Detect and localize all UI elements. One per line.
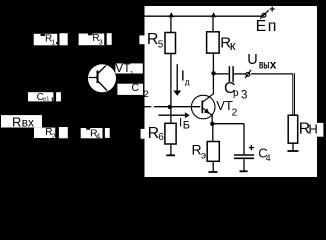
power terminal Еп (circle + slash) xyxy=(260,10,269,19)
svg-text:1: 1 xyxy=(51,40,55,47)
svg-text:Н: Н xyxy=(308,122,317,137)
transistor VT1 (ghost circle, first stage) xyxy=(86,63,116,93)
node: junction dot collector/Cp3 xyxy=(211,71,215,75)
svg-text:х: х xyxy=(270,57,277,71)
transistor VT2 xyxy=(191,94,215,119)
svg-text:3: 3 xyxy=(241,89,247,101)
capacitor C4 plus sign xyxy=(249,145,254,150)
svg-text:U: U xyxy=(247,52,257,68)
svg-text:2: 2 xyxy=(144,89,149,100)
resistor R5 xyxy=(165,33,176,54)
current arrow Iб (base current) xyxy=(158,112,190,131)
ground: Rэ terminal bar xyxy=(209,171,218,173)
transistor VT1 label xyxy=(115,61,143,78)
svg-text:д: д xyxy=(185,78,190,87)
svg-text:вы: вы xyxy=(259,57,270,71)
wire: top supply rail xyxy=(145,15,262,17)
resistor R6 xyxy=(165,123,176,144)
svg-text:6: 6 xyxy=(158,132,164,143)
svg-text:I: I xyxy=(179,117,182,129)
resistor Rн xyxy=(288,115,298,143)
svg-text:VT: VT xyxy=(216,98,233,113)
wire: R6 bottom xyxy=(170,144,172,155)
output terminal (circle + slash) xyxy=(245,70,251,78)
wire: double vertical down to Rн xyxy=(292,74,294,115)
wire: output terminal to Rн corner xyxy=(251,73,293,75)
wire: emitter node to Rэ xyxy=(212,124,214,142)
wire: emitter down to node xyxy=(211,115,213,124)
wire: down to C4 top plate xyxy=(243,124,245,155)
svg-text:C: C xyxy=(131,82,139,94)
node: junction dot base/R5-R6 xyxy=(168,105,172,109)
svg-text:R: R xyxy=(12,114,21,129)
node: junction dot emitter/Rэ/C4 xyxy=(210,122,214,126)
resistor R6 label box fragment (sticks out left of panel) xyxy=(141,129,145,139)
resistor R3 (ghost label box, first stage) xyxy=(79,33,112,46)
wire: R5 bottom to base node to R6 xyxy=(170,54,172,124)
svg-text:3: 3 xyxy=(99,39,103,46)
svg-text:2: 2 xyxy=(232,107,238,118)
wire: Cp3 to output terminal xyxy=(234,73,246,75)
wire: Rk top xyxy=(212,16,214,32)
wire: emitter node to C4 (horizontal) xyxy=(212,123,244,125)
wire: C4 bottom xyxy=(243,159,245,171)
ground: C4 terminal bar xyxy=(240,170,248,172)
svg-text:1: 1 xyxy=(130,71,134,78)
power label + xyxy=(270,6,275,11)
resistor R5 label box fragment (sticks out left of panel) xyxy=(139,35,145,44)
resistor Rk xyxy=(207,32,220,53)
ground: R6 terminal bar xyxy=(166,154,175,156)
resistor R4 (ghost label box, first stage) xyxy=(81,128,110,141)
svg-text:Б: Б xyxy=(183,119,190,131)
svg-text:вх: вх xyxy=(22,115,34,129)
capacitor Cp3 plates xyxy=(229,66,233,82)
svg-text:п: п xyxy=(268,18,277,35)
resistor Rэ xyxy=(207,142,219,162)
svg-text:R: R xyxy=(147,31,159,48)
resistor R2 (ghost label box, first stage) xyxy=(34,127,68,141)
current arrow Iд (divider current) xyxy=(173,64,190,96)
figure panel xyxy=(145,6,318,177)
capacitor C4 plates xyxy=(234,154,254,156)
wire: base wire right segment xyxy=(154,106,200,108)
resistor R1 (ghost label box, first stage) xyxy=(34,33,68,46)
wire: Rэ bottom xyxy=(212,161,214,171)
wire: base wire left segment (C2 gap) xyxy=(145,106,152,108)
svg-text:5: 5 xyxy=(158,40,164,51)
wire: Rk bottom to collector node xyxy=(212,53,214,94)
node: junction dot at R5/rail xyxy=(169,12,174,17)
node: junction dot at Rk/rail xyxy=(211,12,216,17)
ground: Rн terminal bar xyxy=(287,150,298,152)
wire: Rн bottom xyxy=(292,143,294,150)
wire: collector node to Cp3 xyxy=(213,73,228,75)
wire: R5 top xyxy=(170,16,172,32)
svg-text:э: э xyxy=(201,151,206,162)
svg-text:Е: Е xyxy=(256,18,267,35)
node Rвх label (input resistance) xyxy=(1,114,42,129)
resistor Rн label box fragment (sticks out right of panel) xyxy=(317,123,323,137)
capacitor C1 (ghost label box) xyxy=(28,92,61,103)
svg-text:4: 4 xyxy=(266,153,271,163)
svg-text:VT: VT xyxy=(115,61,131,75)
svg-text:2: 2 xyxy=(52,134,56,141)
svg-text:p: p xyxy=(233,88,239,99)
capacitor C2 label (ghost) xyxy=(117,82,148,100)
svg-text:к: к xyxy=(230,38,236,53)
svg-text:4: 4 xyxy=(96,133,100,140)
svg-text:p1: p1 xyxy=(43,96,49,102)
